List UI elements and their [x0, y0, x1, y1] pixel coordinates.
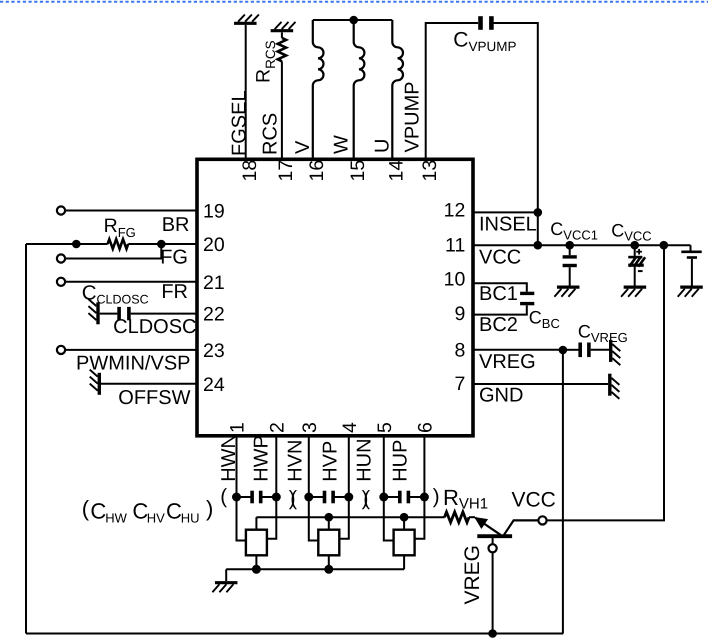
- capacitor C_HU left plate: [398, 491, 402, 504]
- svg-text:VCC: VCC: [479, 247, 521, 269]
- svg-text:RFG: RFG: [104, 215, 136, 240]
- wire gate line to R_VH1: [256, 516, 444, 518]
- svg-text:HWP: HWP: [251, 435, 273, 482]
- svg-text:CCLDOSC: CCLDOSC: [82, 281, 149, 306]
- svg-text:7: 7: [454, 373, 465, 395]
- svg-text:21: 21: [203, 272, 225, 294]
- wire BC2 pin 9: [473, 305, 527, 314]
- junction star point at W: [349, 16, 358, 25]
- svg-text:(: (: [220, 485, 227, 508]
- IC U1 body (24-pin driver): [197, 159, 473, 436]
- svg-text:HVN: HVN: [285, 440, 307, 482]
- capacitor C_HV right plate: [331, 491, 335, 504]
- ground (right capacitor): [678, 287, 703, 297]
- svg-text:11: 11: [445, 235, 465, 257]
- svg-text:V: V: [292, 140, 314, 154]
- transistor Q1 emitter wire: [475, 518, 500, 535]
- polarity - mark C_VCC: [638, 270, 643, 272]
- svg-text:): ): [433, 485, 440, 508]
- capacitor C_VCC bottom plate: [628, 264, 644, 267]
- svg-text:2: 2: [267, 422, 289, 433]
- wire VREG pin 8: [473, 349, 563, 351]
- wire R_FG left lead: [76, 243, 107, 245]
- svg-text:CVCC: CVCC: [611, 220, 651, 243]
- capacitor C_VREG right plate: [587, 343, 591, 358]
- wire ground stub bottom: [225, 569, 227, 581]
- wire PWMIN/VSP pin 23: [65, 349, 197, 351]
- wire FR pin 21: [65, 281, 197, 283]
- ground (C_CLDOSC left): [88, 299, 98, 324]
- wire C_VREG to ground: [591, 349, 609, 351]
- resistor R_VH1: [445, 512, 470, 522]
- svg-text:3: 3: [299, 422, 321, 433]
- svg-text:8: 8: [454, 339, 465, 361]
- terminal PWMIN/VSP (pin 23): [57, 346, 65, 354]
- svg-text:U: U: [372, 139, 394, 153]
- wire INSEL pin 12: [473, 211, 538, 213]
- capacitor C_CLDOSC right plate: [127, 307, 131, 320]
- svg-text:INSEL: INSEL: [479, 214, 537, 236]
- junction box V source: [324, 565, 333, 574]
- svg-text:(: (: [82, 496, 90, 521]
- wire C_VCC to ground: [634, 267, 636, 286]
- capacitor C_HW left plate: [250, 491, 254, 504]
- blue dashed separator line (top): [0, 1, 708, 3]
- svg-text:CVPUMP: CVPUMP: [453, 29, 516, 54]
- transistor Q1 base bar: [477, 534, 512, 538]
- svg-text:15: 15: [347, 160, 369, 182]
- svg-text:CBC: CBC: [529, 308, 560, 331]
- svg-text:17: 17: [275, 160, 297, 182]
- ground (C_VCC): [621, 287, 646, 297]
- wire ground to C_CLDOSC: [100, 313, 118, 315]
- wire C_VCC1 to ground: [569, 267, 571, 285]
- svg-text:18: 18: [239, 160, 261, 182]
- terminal FR (pin 21): [57, 278, 65, 286]
- svg-text:FG: FG: [160, 247, 188, 269]
- wire box V top stub: [328, 517, 330, 530]
- svg-text:VREG: VREG: [479, 351, 536, 373]
- wire C_VCC stub: [634, 245, 636, 256]
- svg-text:RVH1: RVH1: [443, 485, 488, 513]
- capacitor C_VCC1 top plate: [563, 255, 577, 258]
- junction VREG branch: [559, 346, 568, 355]
- ground (FGSEL pin 18 pull): [234, 15, 259, 24]
- wire cap stub right HUP: [408, 496, 424, 498]
- svg-text:FGSEL: FGSEL: [228, 90, 250, 156]
- svg-text:OFFSW: OFFSW: [118, 387, 190, 409]
- svg-text:BC1: BC1: [479, 283, 518, 305]
- svg-text:GND: GND: [479, 384, 523, 406]
- junction HVN cap: [304, 493, 313, 502]
- capacitor C_CLDOSC left plate: [117, 307, 121, 320]
- capacitor C_BC bottom plate: [520, 302, 534, 305]
- svg-text:W: W: [331, 135, 353, 154]
- svg-text:RRCS: RRCS: [253, 40, 278, 83]
- wire VCC pin 11 rail: [473, 244, 691, 246]
- wire box U bottom stub: [403, 555, 405, 569]
- capacitor C_VPUMP right plate: [489, 16, 494, 30]
- svg-text:C: C: [90, 499, 106, 524]
- wire box W bottom stub: [255, 555, 257, 569]
- wire FG to left rail: [26, 243, 76, 245]
- wire box V bottom stub: [328, 555, 330, 569]
- wire HUP pin 6: [415, 436, 425, 539]
- wire HVN pin 3: [309, 436, 319, 541]
- wire C_CLDOSC to pin 22: [131, 313, 197, 315]
- wire box W top stub: [255, 517, 257, 530]
- wire HUN pin 5: [384, 436, 394, 541]
- capacitor C_VCC polarized plate (hatched): [629, 257, 645, 266]
- wire right capacitor to ground: [691, 259, 693, 286]
- svg-text:(: (: [363, 487, 370, 510]
- capacitor C_VCC1 bottom plate: [563, 264, 577, 267]
- capacitor C_BC top plate: [520, 292, 534, 295]
- wire HWN pin 1: [237, 436, 246, 541]
- wire cap stub right HWP: [261, 496, 277, 498]
- ground (pre-driver source): [212, 583, 237, 593]
- motor winding / inductor V (pin 16): [313, 20, 324, 159]
- svg-text:20: 20: [203, 234, 225, 256]
- wire collector to VCC rail: [547, 245, 664, 520]
- transistor Q1 emitter arrowhead: [475, 518, 487, 529]
- capacitor C_VREG left plate: [578, 343, 582, 358]
- resistor R_FG: [108, 239, 129, 249]
- wire BC1 pin 10: [473, 283, 527, 291]
- svg-text:PWMIN/VSP: PWMIN/VSP: [76, 353, 190, 375]
- wire FG terminal stub: [65, 244, 161, 259]
- junction INSEL branch: [534, 208, 543, 217]
- resistor R_RCS: [278, 38, 286, 61]
- polarity + mark C_VCC: [636, 249, 642, 255]
- motor winding / inductor U (pin 14): [392, 20, 403, 159]
- ground (OFFSW pin 24): [90, 370, 100, 395]
- junction HWN cap: [232, 493, 241, 502]
- wire FG pin 20 to R_FG: [161, 243, 197, 245]
- svg-text:HUN: HUN: [354, 438, 376, 481]
- terminal BR (pin 19): [57, 206, 65, 214]
- svg-text:BC2: BC2: [479, 314, 518, 336]
- svg-text:23: 23: [203, 340, 225, 362]
- junction FG right: [157, 240, 166, 249]
- svg-text:RCS: RCS: [260, 113, 282, 155]
- wire C_VCC1 stub: [569, 245, 571, 255]
- wire C_VPUMP to INSEL branch: [493, 23, 538, 245]
- terminal VREG (base): [489, 544, 497, 552]
- junction HUP cap: [420, 493, 429, 502]
- wire box U top stub: [403, 517, 405, 530]
- svg-text:BR: BR: [162, 214, 190, 236]
- capacitor (right, unlabeled) bottom plate: [687, 256, 697, 259]
- capacitor C_HW right plate: [259, 491, 263, 504]
- wire OFFSW pin 24: [101, 383, 197, 385]
- terminal VCC (collector): [538, 516, 546, 524]
- wire HWP pin 2: [267, 436, 276, 539]
- wire base to bottom rail: [492, 552, 494, 633]
- wire RCS pin 17: [281, 61, 283, 159]
- motor winding / inductor W (pin 15): [354, 20, 365, 159]
- wire BR pin 19: [65, 210, 197, 212]
- ground (C_VCC1): [554, 287, 579, 297]
- junction gate box U: [400, 513, 409, 522]
- wire VPUMP pin 13 up: [426, 23, 478, 159]
- wire cap stub left HVN: [309, 496, 325, 498]
- svg-text:24: 24: [203, 374, 225, 396]
- transistor Q1 base stub: [492, 538, 494, 544]
- pre-driver box W (between HWN/HWP): [246, 530, 267, 556]
- wire HVP pin 4: [339, 436, 349, 539]
- wire R_RCS top lead: [281, 32, 283, 38]
- junction HVP cap: [344, 493, 353, 502]
- pre-driver box U (between HUN/HUP): [394, 530, 415, 556]
- ground (GND pin 7): [610, 374, 620, 399]
- junction HWP cap: [272, 493, 281, 502]
- capacitor C_HU right plate: [407, 491, 411, 504]
- junction VPUMP/VCC: [534, 241, 543, 250]
- wire GND pin 7: [473, 383, 608, 385]
- svg-text:FR: FR: [161, 281, 188, 303]
- svg-text:C: C: [166, 499, 182, 524]
- svg-text:16: 16: [306, 160, 328, 182]
- svg-text:19: 19: [203, 201, 225, 223]
- svg-text:12: 12: [444, 199, 466, 221]
- svg-text:10: 10: [444, 268, 466, 290]
- svg-text:HWN: HWN: [218, 434, 240, 482]
- svg-text:HVP: HVP: [320, 441, 342, 482]
- junction box W source: [252, 565, 261, 574]
- transistor Q1 collector wire: [504, 520, 538, 534]
- wire left rail (FG to bottom): [25, 244, 27, 634]
- wire FGSEL pin 18: [245, 25, 247, 159]
- capacitor C_VPUMP left plate: [478, 16, 483, 30]
- svg-text:CVREG: CVREG: [578, 322, 628, 345]
- wire VCC rail corner to right capacitor: [690, 245, 692, 250]
- svg-text:22: 22: [203, 304, 225, 326]
- junction base/bottom rail: [488, 629, 497, 638]
- svg-text:13: 13: [419, 160, 441, 182]
- svg-text:VREG: VREG: [461, 545, 484, 605]
- wire VREG to C_VREG: [563, 349, 579, 351]
- junction HUN cap: [379, 493, 388, 502]
- svg-text:VCC: VCC: [512, 489, 556, 512]
- wire VREG rail down: [562, 350, 564, 634]
- ground (C_VREG): [611, 340, 621, 365]
- junction gate box V: [325, 513, 334, 522]
- svg-text:14: 14: [386, 160, 408, 182]
- wire cap stub right HVP: [333, 496, 349, 498]
- svg-text:HV: HV: [147, 511, 165, 526]
- capacitor (right, unlabeled) top plate: [681, 251, 701, 254]
- svg-text:CVCC1: CVCC1: [550, 219, 598, 242]
- svg-text:4: 4: [339, 422, 361, 433]
- capacitor C_VCC top plate: [628, 256, 642, 259]
- junction C_VCC1: [565, 241, 574, 250]
- junction C_VCC: [630, 241, 639, 250]
- ground (R_RCS top): [271, 22, 296, 31]
- svg-text:): ): [206, 496, 213, 521]
- svg-text:HUP: HUP: [389, 440, 411, 482]
- wire R_FG right lead: [128, 243, 161, 245]
- svg-text:6: 6: [415, 422, 437, 433]
- wire bottom rail (boxes): [226, 568, 404, 570]
- wire cap stub left HUN: [384, 496, 400, 498]
- wire motor star connection: [313, 19, 393, 21]
- junction VCC to transistor collector: [660, 241, 669, 250]
- wire cap stub left HWN: [237, 496, 253, 498]
- junction FG left: [72, 240, 81, 249]
- wire bottom rail: [26, 633, 563, 635]
- svg-text:9: 9: [454, 303, 465, 325]
- svg-text:(: (: [290, 487, 297, 510]
- svg-text:5: 5: [374, 422, 396, 433]
- svg-text:HU: HU: [181, 511, 200, 526]
- svg-text:HW: HW: [105, 511, 127, 526]
- pre-driver box V (between HVN/HVP): [318, 530, 339, 556]
- terminal FG: [57, 254, 65, 262]
- svg-text:VPUMP: VPUMP: [402, 81, 424, 152]
- capacitor C_HV left plate: [323, 491, 327, 504]
- svg-text:1: 1: [227, 422, 249, 433]
- svg-text:CLDOSC: CLDOSC: [113, 316, 196, 338]
